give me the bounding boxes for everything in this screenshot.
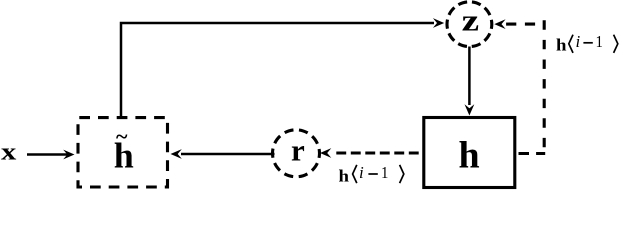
svg-text:h: h bbox=[339, 167, 350, 186]
svg-text:i: i bbox=[359, 163, 364, 182]
dashed wire h box to r with arrowhead bbox=[320, 148, 423, 158]
label h(i-1) upper (recurrent state into z) bbox=[556, 32, 618, 54]
label x (input) bbox=[1, 140, 16, 166]
box h-tilde (dashed) bbox=[78, 118, 168, 187]
svg-text:~: ~ bbox=[116, 124, 128, 149]
box h (solid) bbox=[424, 118, 515, 188]
label h (state) bbox=[459, 134, 480, 176]
svg-text:z: z bbox=[462, 3, 479, 38]
label h(i-1) lower (recurrent state into r) bbox=[339, 163, 404, 185]
label z bbox=[462, 3, 479, 38]
wire z down to h box with arrowhead bbox=[465, 47, 475, 116]
svg-text:1: 1 bbox=[596, 32, 603, 51]
node z (dashed circle) bbox=[447, 2, 492, 47]
svg-text:h: h bbox=[556, 35, 567, 54]
svg-text:x: x bbox=[1, 140, 16, 166]
wire h-tilde top up and right to z bbox=[121, 18, 444, 116]
svg-text:h: h bbox=[459, 134, 480, 176]
dashed wire into z with arrowhead bbox=[494, 19, 543, 29]
label h-tilde bbox=[114, 124, 134, 176]
wire r to h-tilde box with arrowhead bbox=[171, 149, 275, 159]
node r (dashed circle) bbox=[273, 130, 320, 177]
label r bbox=[291, 132, 305, 167]
dashed wire corner up bbox=[543, 20, 546, 148]
svg-text:r: r bbox=[291, 132, 305, 167]
wire x to h-tilde box with arrowhead bbox=[27, 150, 75, 160]
dashed wire h box right side to corner bbox=[516, 152, 546, 155]
svg-text:1: 1 bbox=[381, 163, 388, 182]
svg-text:i: i bbox=[576, 32, 581, 51]
